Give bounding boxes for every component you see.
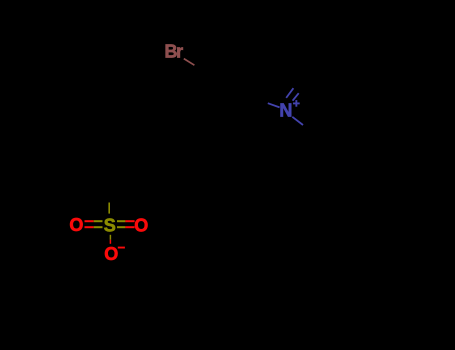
double bond S=O left, lower line (olive sulfur half) xyxy=(94,226,103,228)
double bond S=O right, upper line (red oxygen half) xyxy=(125,220,134,222)
svg-text:O: O xyxy=(104,244,118,264)
double bond C2=N line 2 (outer, nitrogen side) xyxy=(293,93,299,101)
double bond S=O left, upper line (olive sulfur half) xyxy=(94,220,103,222)
plus charge sign on N xyxy=(293,102,300,104)
minus charge sign on O xyxy=(118,247,125,249)
double bond S=O right, lower line (olive sulfur half) xyxy=(117,226,125,228)
svg-text:O: O xyxy=(134,215,148,235)
bond S-CH3 (half-bond, sulfur side) xyxy=(108,203,110,214)
svg-text:O: O xyxy=(69,215,83,235)
bond S-O(minus), sulfur half (olive) xyxy=(109,235,111,240)
double bond S=O left, upper line (red oxygen half) xyxy=(85,220,94,222)
double bond S=O right, lower line (red oxygen half) xyxy=(125,226,134,228)
svg-text:N: N xyxy=(279,100,292,120)
bond Br-C (half-bond, bromine side) xyxy=(184,59,195,66)
bond S-O(minus), oxygen half (red) xyxy=(109,240,111,244)
svg-text:S: S xyxy=(104,215,116,235)
double bond S=O left, lower line (red oxygen half) xyxy=(85,226,94,228)
svg-text:Br: Br xyxy=(165,41,184,61)
double bond C2=N line 1 (inner, nitrogen side) xyxy=(286,88,293,98)
double bond S=O right, upper line (olive sulfur half) xyxy=(117,220,125,222)
bond N-CH3 (half-bond, nitrogen side) xyxy=(292,117,303,125)
bond C7a-N (half-bond, nitrogen side, to fused ring) xyxy=(268,103,280,107)
